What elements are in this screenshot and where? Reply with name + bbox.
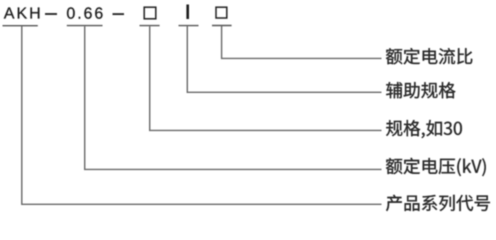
dash separator 1 [45, 13, 57, 15]
text 0.66 (rated voltage value) [67, 7, 103, 18]
underline under box 1 [140, 25, 160, 27]
label specification e.g. 30 [386, 120, 462, 138]
placeholder box 1 (specification) [144, 7, 156, 19]
text AKH (product series code) [4, 8, 40, 19]
underline under AKH [3, 25, 38, 27]
label rated current ratio [386, 48, 472, 64]
label auxiliary specification [386, 82, 455, 98]
placeholder box 2 (rated current ratio) [216, 7, 227, 18]
letter I (auxiliary spec mark) [186, 5, 189, 20]
label product series designation [386, 195, 490, 211]
callout wire from box 1 [150, 26, 382, 130]
callout wire from AKH to bottom label [22, 26, 382, 204]
underline under box 2 [212, 25, 232, 27]
callout wire from I [187, 26, 381, 92]
label rated voltage kV [386, 158, 486, 176]
underline under I [179, 25, 199, 27]
callout wire from 0.66 [85, 26, 382, 169]
callout wire from box 2 [222, 26, 382, 58]
dash separator 2 [113, 13, 125, 15]
underline under 0.66 [67, 25, 103, 27]
